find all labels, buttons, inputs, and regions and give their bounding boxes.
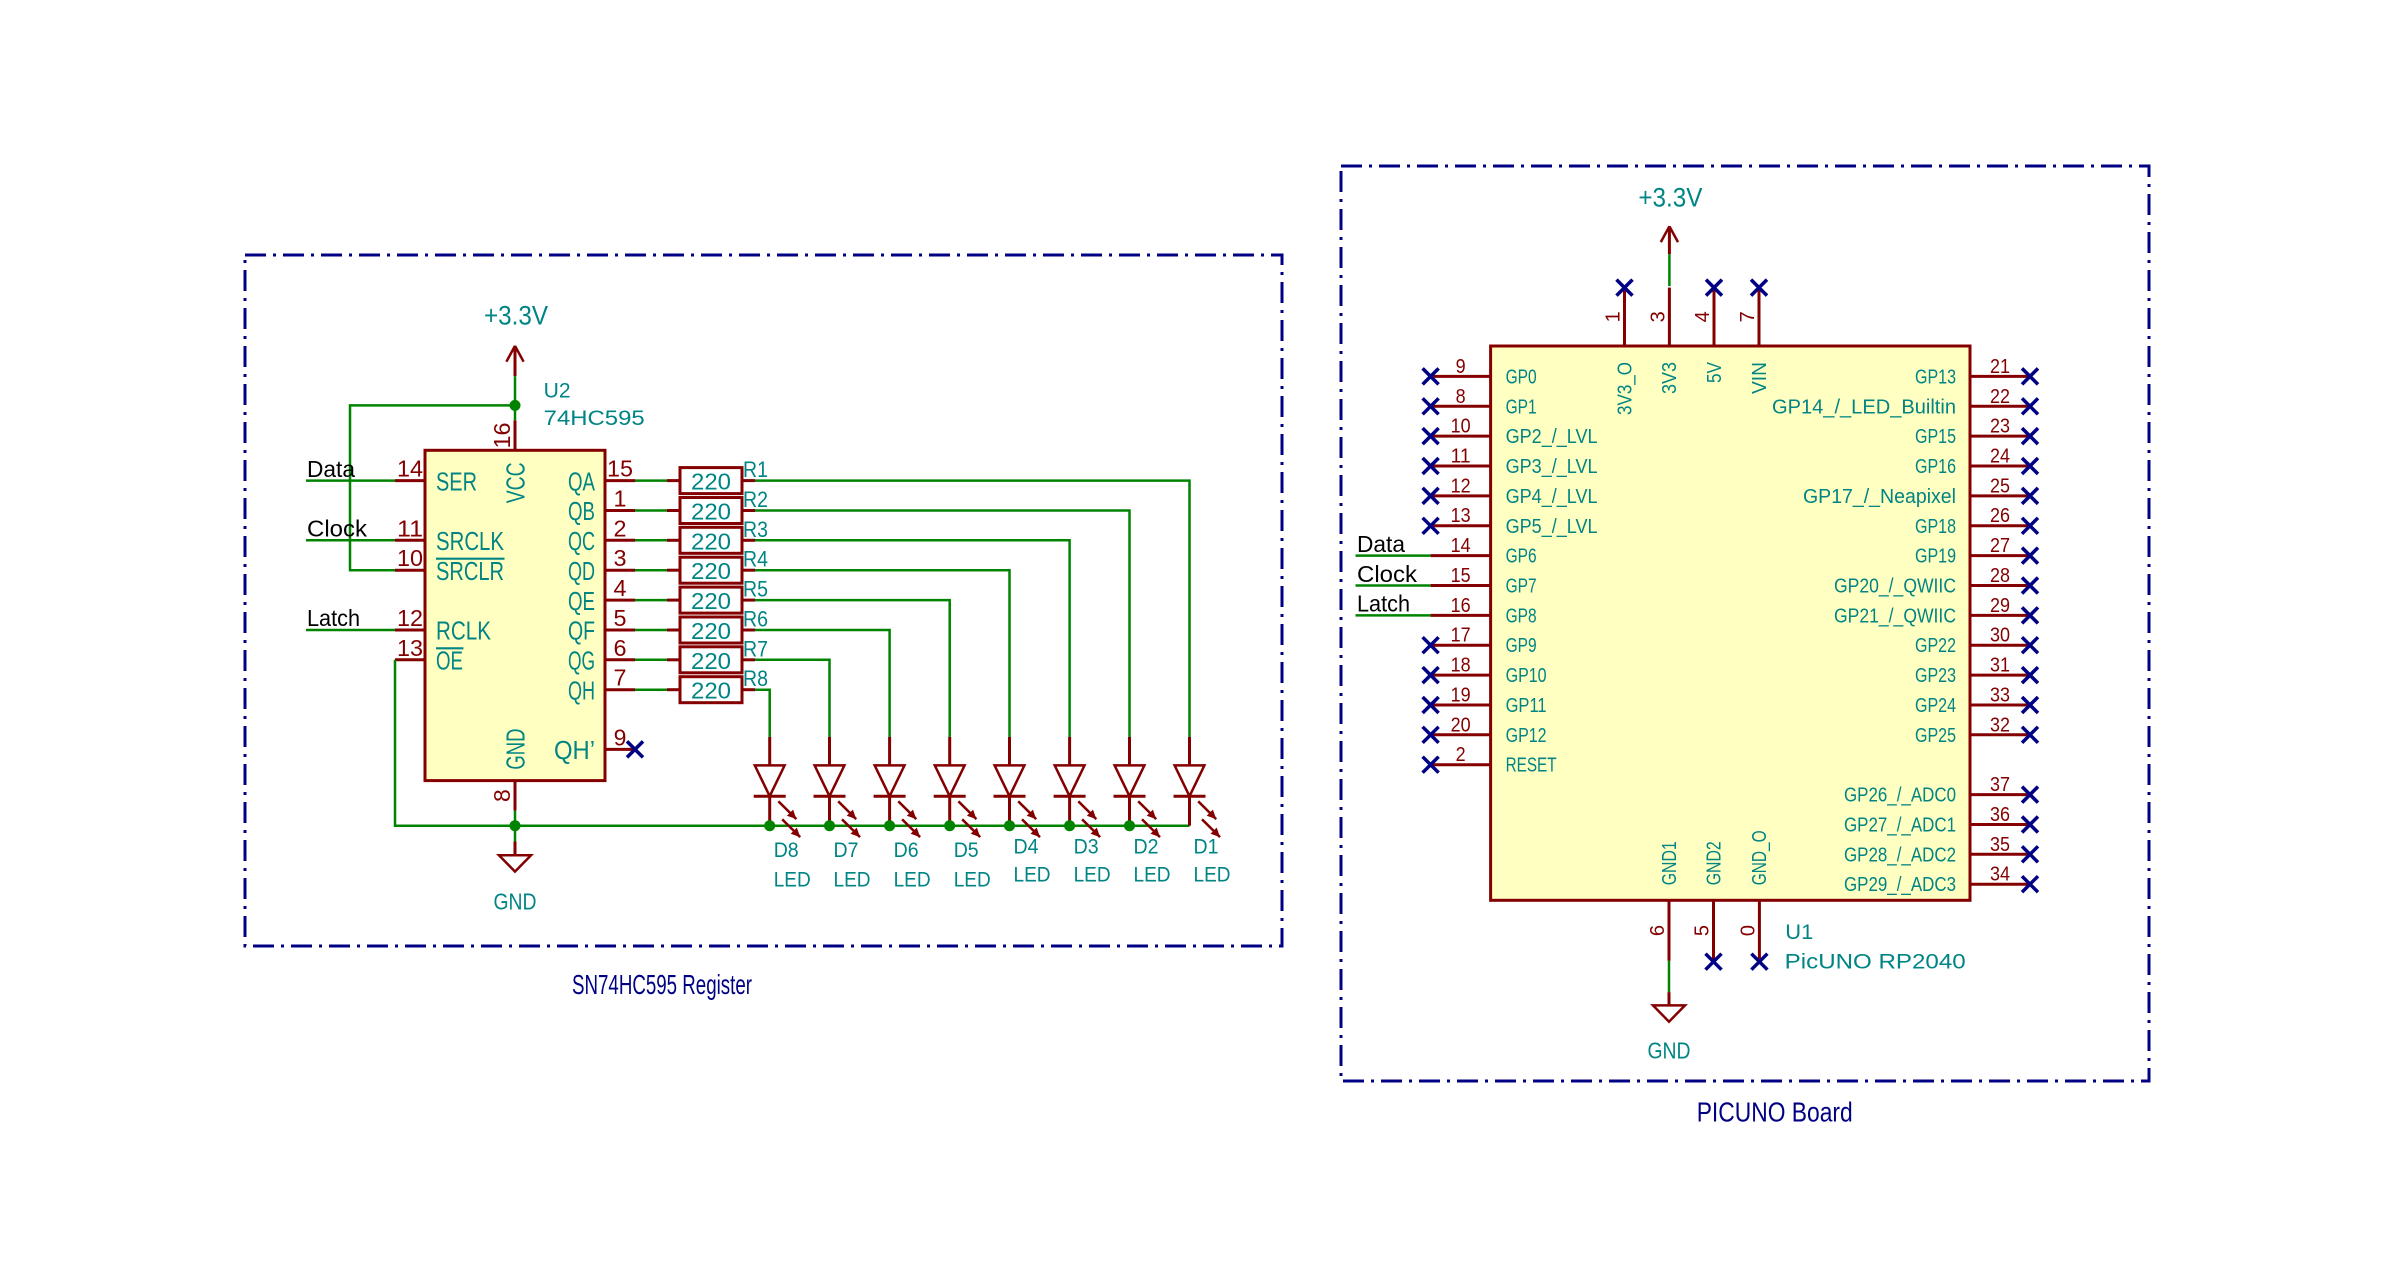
svg-text:1: 1 [1603, 311, 1625, 322]
svg-text:GP7: GP7 [1506, 576, 1537, 598]
svg-text:27: 27 [1990, 535, 2010, 557]
svg-text:GP25: GP25 [1915, 725, 1956, 747]
svg-text:220: 220 [691, 558, 731, 584]
svg-text:37: 37 [1990, 774, 2010, 796]
svg-text:QD: QD [568, 556, 595, 586]
svg-text:QB: QB [568, 496, 595, 526]
svg-text:2: 2 [1456, 744, 1466, 766]
svg-text:GP5_/_LVL: GP5_/_LVL [1506, 516, 1598, 538]
svg-text:13: 13 [397, 635, 423, 661]
svg-text:13: 13 [1451, 505, 1471, 527]
svg-text:GP4_/_LVL: GP4_/_LVL [1506, 486, 1598, 508]
svg-text:GP1: GP1 [1506, 396, 1537, 418]
svg-text:16: 16 [1451, 595, 1471, 617]
svg-text:2: 2 [614, 515, 627, 541]
svg-text:LED: LED [834, 869, 871, 892]
svg-text:GP21_/_QWIIC: GP21_/_QWIIC [1834, 605, 1956, 627]
svg-text:12: 12 [1451, 475, 1471, 497]
svg-text:31: 31 [1990, 655, 2010, 677]
svg-text:17: 17 [1451, 625, 1471, 647]
svg-text:1: 1 [614, 486, 627, 512]
svg-text:11: 11 [397, 515, 423, 541]
svg-text:GND: GND [494, 889, 537, 915]
svg-text:15: 15 [607, 456, 633, 482]
svg-text:10: 10 [397, 545, 423, 571]
svg-text:GP15: GP15 [1915, 426, 1956, 448]
svg-text:32: 32 [1990, 714, 2010, 736]
svg-text:LED: LED [894, 869, 931, 892]
svg-text:R8: R8 [743, 666, 768, 691]
svg-text:GP22: GP22 [1915, 635, 1956, 657]
svg-text:GP19: GP19 [1915, 546, 1956, 568]
svg-text:GP23: GP23 [1915, 665, 1956, 687]
svg-text:GP14_/_LED_Builtin: GP14_/_LED_Builtin [1772, 396, 1956, 418]
svg-text:74HC595: 74HC595 [544, 407, 645, 430]
svg-text:SRCLR: SRCLR [436, 556, 504, 586]
svg-text:D3: D3 [1074, 835, 1099, 858]
svg-text:Latch: Latch [1357, 591, 1410, 617]
svg-text:20: 20 [1451, 714, 1471, 736]
svg-text:RESET: RESET [1506, 755, 1557, 777]
svg-text:28: 28 [1990, 565, 2010, 587]
svg-text:D1: D1 [1194, 835, 1219, 858]
svg-text:LED: LED [1014, 864, 1051, 887]
svg-text:18: 18 [1451, 655, 1471, 677]
svg-text:GP0: GP0 [1506, 366, 1537, 388]
svg-text:SN74HC595 Register: SN74HC595 Register [572, 969, 752, 1000]
svg-text:34: 34 [1990, 864, 2010, 886]
svg-text:GP2_/_LVL: GP2_/_LVL [1506, 426, 1598, 448]
svg-text:D2: D2 [1134, 835, 1159, 858]
svg-text:4: 4 [1692, 311, 1714, 322]
svg-text:GND1: GND1 [1659, 841, 1681, 885]
svg-text:5: 5 [1692, 925, 1714, 936]
svg-text:220: 220 [691, 499, 731, 525]
svg-text:VCC: VCC [501, 462, 531, 503]
svg-text:GP11: GP11 [1506, 695, 1547, 717]
svg-text:16: 16 [489, 423, 515, 449]
svg-text:Clock: Clock [1357, 561, 1418, 587]
svg-text:Latch: Latch [307, 605, 360, 631]
svg-text:RCLK: RCLK [436, 616, 492, 646]
svg-text:36: 36 [1990, 804, 2010, 826]
svg-text:GND_O: GND_O [1749, 830, 1771, 885]
svg-text:GND: GND [1648, 1038, 1691, 1064]
svg-text:29: 29 [1990, 595, 2010, 617]
svg-text:5: 5 [614, 605, 627, 631]
svg-text:GP24: GP24 [1915, 695, 1956, 717]
svg-text:3V3: 3V3 [1659, 362, 1681, 394]
svg-text:LED: LED [774, 869, 811, 892]
svg-text:GP12: GP12 [1506, 725, 1547, 747]
svg-text:R3: R3 [743, 517, 768, 542]
svg-text:220: 220 [691, 469, 731, 495]
svg-text:12: 12 [397, 605, 423, 631]
svg-text:220: 220 [691, 618, 731, 644]
svg-text:33: 33 [1990, 685, 2010, 707]
svg-text:R1: R1 [743, 457, 768, 482]
svg-text:3: 3 [1647, 311, 1669, 322]
svg-text:220: 220 [691, 588, 731, 614]
svg-text:GND: GND [501, 729, 531, 770]
svg-text:Clock: Clock [307, 516, 368, 542]
svg-text:GP27_/_ADC1: GP27_/_ADC1 [1844, 815, 1956, 837]
svg-text:QH: QH [568, 675, 595, 705]
svg-text:D8: D8 [774, 839, 799, 862]
svg-text:19: 19 [1451, 685, 1471, 707]
svg-text:D7: D7 [834, 839, 859, 862]
svg-text:GP26_/_ADC0: GP26_/_ADC0 [1844, 785, 1956, 807]
svg-text:SRCLK: SRCLK [436, 526, 505, 556]
svg-text:U2: U2 [544, 380, 571, 403]
svg-text:Data: Data [307, 456, 355, 482]
svg-text:6: 6 [1647, 925, 1669, 936]
svg-text:QH’: QH’ [554, 735, 595, 765]
svg-text:GP20_/_QWIIC: GP20_/_QWIIC [1834, 576, 1956, 598]
svg-text:U1: U1 [1785, 921, 1813, 944]
svg-text:GP16: GP16 [1915, 456, 1956, 478]
svg-text:QC: QC [568, 526, 595, 556]
svg-text:D6: D6 [894, 839, 919, 862]
svg-text:QF: QF [568, 616, 595, 646]
svg-text:R4: R4 [743, 547, 768, 572]
svg-text:QE: QE [568, 586, 595, 616]
svg-text:+3.3V: +3.3V [1638, 182, 1702, 212]
svg-text:8: 8 [489, 789, 515, 802]
svg-text:GP28_/_ADC2: GP28_/_ADC2 [1844, 844, 1956, 866]
svg-text:QG: QG [568, 646, 595, 676]
svg-text:GP17_/_Neapixel: GP17_/_Neapixel [1803, 486, 1956, 508]
svg-text:R7: R7 [743, 636, 768, 661]
svg-text:R2: R2 [743, 487, 768, 512]
svg-text:7: 7 [1737, 311, 1759, 322]
svg-text:VIN: VIN [1749, 362, 1771, 394]
svg-text:9: 9 [1456, 356, 1466, 378]
svg-text:220: 220 [691, 678, 731, 704]
svg-text:GP10: GP10 [1506, 665, 1547, 687]
svg-text:Data: Data [1357, 531, 1405, 557]
svg-text:GP6: GP6 [1506, 546, 1537, 568]
svg-text:PicUNO RP2040: PicUNO RP2040 [1785, 950, 1966, 973]
svg-text:220: 220 [691, 648, 731, 674]
svg-text:0: 0 [1737, 925, 1759, 936]
svg-text:14: 14 [1451, 535, 1471, 557]
svg-text:+3.3V: +3.3V [484, 300, 548, 330]
svg-text:25: 25 [1990, 475, 2010, 497]
svg-text:LED: LED [954, 869, 991, 892]
svg-text:35: 35 [1990, 834, 2010, 856]
svg-text:9: 9 [614, 724, 627, 750]
svg-text:R6: R6 [743, 607, 768, 632]
svg-text:3V3_O: 3V3_O [1614, 362, 1636, 415]
svg-text:GP29_/_ADC3: GP29_/_ADC3 [1844, 874, 1956, 896]
svg-text:GP3_/_LVL: GP3_/_LVL [1506, 456, 1598, 478]
svg-text:7: 7 [614, 665, 627, 691]
svg-text:GP18: GP18 [1915, 516, 1956, 538]
svg-text:PICUNO Board: PICUNO Board [1697, 1097, 1853, 1128]
svg-text:SER: SER [436, 466, 477, 496]
svg-text:GP9: GP9 [1506, 635, 1537, 657]
svg-text:10: 10 [1451, 416, 1471, 438]
svg-text:OE: OE [436, 646, 463, 676]
svg-text:D5: D5 [954, 839, 979, 862]
svg-text:30: 30 [1990, 625, 2010, 647]
svg-text:21: 21 [1990, 356, 2010, 378]
svg-text:GP13: GP13 [1915, 366, 1956, 388]
svg-text:LED: LED [1074, 864, 1111, 887]
svg-text:26: 26 [1990, 505, 2010, 527]
svg-text:11: 11 [1451, 446, 1471, 468]
svg-text:8: 8 [1456, 386, 1466, 408]
svg-text:22: 22 [1990, 386, 2010, 408]
svg-text:GP8: GP8 [1506, 605, 1537, 627]
svg-text:6: 6 [614, 635, 627, 661]
svg-text:23: 23 [1990, 416, 2010, 438]
svg-text:14: 14 [397, 456, 423, 482]
svg-text:5V: 5V [1704, 361, 1726, 383]
svg-text:24: 24 [1990, 446, 2010, 468]
svg-text:220: 220 [691, 528, 731, 554]
svg-text:4: 4 [614, 575, 627, 601]
svg-text:D4: D4 [1014, 835, 1039, 858]
svg-text:LED: LED [1134, 864, 1171, 887]
svg-text:15: 15 [1451, 565, 1471, 587]
svg-text:GND2: GND2 [1703, 841, 1725, 885]
svg-text:LED: LED [1194, 864, 1231, 887]
svg-text:3: 3 [614, 545, 627, 571]
svg-text:R5: R5 [743, 577, 768, 602]
svg-text:QA: QA [568, 466, 595, 496]
